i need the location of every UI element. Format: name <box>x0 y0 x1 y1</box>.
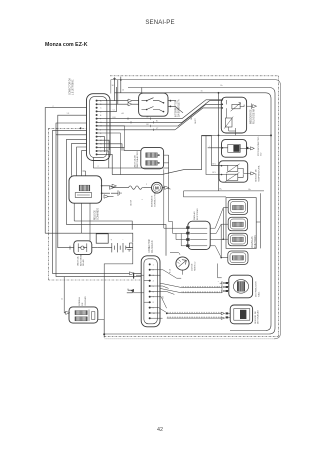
svg-text:B+: B+ <box>220 189 223 191</box>
shielded cable to knock sensor line 2 <box>167 317 221 319</box>
injector V4 body <box>228 251 248 264</box>
motor M1 fuel pump circle <box>152 182 163 193</box>
coil T1 label BOBINA DE IGNICAO <box>78 296 87 306</box>
svg-text:DE: DE <box>82 302 84 306</box>
wire left bus 1 from pin row <box>52 131 141 274</box>
wire 2 to ECU pin (left feed) <box>45 108 86 234</box>
terminal arrow pump feed <box>110 186 115 189</box>
relay K1 label RELE DE COMANDO <box>94 208 99 220</box>
svg-text:BOBINA: BOBINA <box>78 297 81 306</box>
wire left bus 2 from pin row <box>56 135 141 277</box>
svg-text:PARTIDA A FRIO: PARTIDA A FRIO <box>136 151 139 168</box>
wire pin to cold start feed <box>97 147 141 150</box>
svg-text:MEDIDOR DE: MEDIDOR DE <box>251 109 253 124</box>
sensor B1 pot track <box>232 104 240 108</box>
ground arrow right of water temp sensor <box>248 172 255 175</box>
wire long run to pump row <box>112 135 211 174</box>
svg-text:15: 15 <box>62 298 64 300</box>
switch S1 contacts <box>142 98 164 112</box>
wire battery row <box>98 247 133 249</box>
connector diagnostic socket <box>96 234 108 243</box>
svg-text:RELE DE: RELE DE <box>94 210 96 220</box>
wire outer frame bottom ticked <box>104 338 274 340</box>
connector J2 pin letters <box>153 264 156 315</box>
terminal curl arrow into connector 2 <box>127 289 132 293</box>
wire feeds into B3 <box>202 136 212 175</box>
node battery plus mark <box>113 77 116 80</box>
sensor B1 temp resistor <box>225 118 232 127</box>
switch S1 label INTERRUPTOR DA BORBOLETA <box>176 99 181 117</box>
distributor U1 pins <box>226 283 229 291</box>
sensor B3 thermistor 2 <box>227 174 238 180</box>
ground symbol right of relay <box>111 190 121 196</box>
terminal arrows between J1 and throttle switch <box>128 99 132 106</box>
wire long bus row 4 to right column <box>97 129 175 131</box>
sensor B2 temperature sender body <box>222 140 247 158</box>
wire pin to mid vertical b <box>97 140 109 150</box>
svg-text:GE/RT: GE/RT <box>195 117 197 124</box>
svg-text:+: + <box>209 146 211 148</box>
connector J2 label CONECTOR DA 3A EZ-K <box>149 239 154 252</box>
wire J3 to injector V3 <box>210 239 223 241</box>
connector J2 CONECTOR DA 3A EZ-K outer shell <box>141 256 160 327</box>
resistor ballast squiggle fuel pump <box>129 186 144 189</box>
svg-text:2: 2 <box>146 184 147 186</box>
svg-text:A: A <box>100 100 102 103</box>
ECU boundary dashed top edge <box>110 75 279 77</box>
valve Y1 right pins <box>157 155 168 163</box>
svg-text:B.14: B.14 <box>170 269 172 273</box>
svg-text:1: 1 <box>153 264 155 266</box>
connector J1 label CONECTOR DA L.E.JETRONIC <box>69 78 75 95</box>
switch S1 contact pivots <box>146 100 148 102</box>
node junction at bus C <box>270 134 272 136</box>
wire diagonal bundle to air flow meter 3 <box>178 104 221 126</box>
wire long bus row 1 to right column <box>97 118 182 120</box>
sensor B3 label <box>256 165 261 182</box>
wire bus into connector2 region 1 <box>140 272 142 274</box>
relay K1 coil <box>79 185 90 191</box>
labels B.5 pins <box>209 146 217 175</box>
wire top feed 15 riser to injectors <box>218 93 220 191</box>
coil T1 core and hv terminal <box>89 310 95 322</box>
svg-text:CO: CO <box>261 152 263 156</box>
svg-text:1: 1 <box>142 199 144 200</box>
svg-text:15: 15 <box>122 90 125 92</box>
coil T1 primary winding <box>75 311 87 315</box>
injector group outer frame <box>226 198 256 249</box>
knock sensor pin blocks <box>226 312 229 314</box>
svg-text:PARA AS: PARA AS <box>193 211 196 220</box>
wire pin D down-fan 1 <box>97 87 117 111</box>
wire battery riser <box>104 251 133 338</box>
sensor B4 knock sensor body <box>230 305 252 324</box>
svg-text:B 5: B 5 <box>213 172 217 174</box>
injector V1 body <box>228 200 247 215</box>
svg-text:C2: C2 <box>113 110 115 112</box>
svg-text:GE/GR: GE/GR <box>131 199 133 206</box>
svg-text:FLUXO DE AR: FLUXO DE AR <box>253 108 256 124</box>
lamp H1 filament arrow <box>179 260 187 267</box>
svg-text:HALL: HALL <box>257 291 260 297</box>
svg-text:VALVULAS: VALVULAS <box>251 236 254 248</box>
ECU boundary dashed mid shelf to connector 2 <box>49 279 142 281</box>
injector V4 pin <box>221 257 228 259</box>
injector bus verticals <box>221 208 223 258</box>
wire long bus row 2 to right column <box>97 121 182 123</box>
svg-text:+: + <box>111 239 113 242</box>
svg-text:LUZ DE: LUZ DE <box>192 263 194 271</box>
svg-text:ADICIONAL: ADICIONAL <box>79 253 82 266</box>
wire left inner bus 3 <box>67 139 87 221</box>
relay K1 bottom pins <box>74 203 90 241</box>
wire perimeter bus C (inner loop right) <box>115 93 272 331</box>
svg-text:INJETORAS: INJETORAS <box>196 208 199 220</box>
valve Y1 label <box>133 151 139 168</box>
switch S1 right pins <box>168 101 172 107</box>
connector J1 inner shell <box>90 97 107 158</box>
wire mid-left horizontal run 1 <box>74 221 132 230</box>
injector V3 coil <box>233 237 244 241</box>
svg-text:SW: SW <box>163 296 165 299</box>
wire mid-left horizontal run 2 <box>67 221 166 256</box>
sensor B3 pins <box>212 166 248 178</box>
svg-text:1 2: 1 2 <box>124 147 126 150</box>
node junction on dashed shelf left <box>80 127 82 129</box>
injector V2 pin <box>221 223 228 225</box>
relay K1 RELE DE COMANDO body <box>69 176 102 203</box>
svg-text:CONECTOR: CONECTOR <box>149 239 151 252</box>
wire row 2 below connector <box>94 158 169 169</box>
wire diagonal bundle to air flow meter 1 <box>182 100 221 119</box>
svg-text:SERVICO: SERVICO <box>195 261 197 271</box>
wire battery to riser <box>129 243 133 251</box>
ground symbol at battery <box>126 243 132 251</box>
svg-text:GE/BL: GE/BL <box>191 114 193 120</box>
svg-text:DISTRIBUIDOR: DISTRIBUIDOR <box>255 281 257 297</box>
wire B+ feed to injectors <box>184 191 264 197</box>
coil T1 secondary winding <box>75 317 87 321</box>
wire pump branch <box>112 187 128 189</box>
injector V3 body <box>228 233 247 246</box>
svg-text:15: 15 <box>201 90 203 92</box>
svg-text:2: 2 <box>53 106 54 108</box>
wire diagonal bundle to air flow meter 2 <box>182 100 221 122</box>
ground arrow right of temp sender <box>247 147 255 150</box>
wire right column vertical stub above distributor <box>218 264 222 278</box>
ground arrow right of air flow meter <box>247 103 257 109</box>
wire pin to mid vertical a <box>97 137 105 152</box>
injector V2 body <box>228 217 247 231</box>
wire pin riser to top bus 3 <box>120 77 122 93</box>
wire right bus down from injectors <box>256 193 260 248</box>
node junction 15 feed <box>218 92 220 94</box>
wire J2 pin rows right to diagonals <box>151 270 182 318</box>
relay K1 side pins <box>102 186 110 193</box>
tiny pin tick marks on bus rows <box>128 117 154 131</box>
terminal arrow into connector 2 upper <box>130 272 135 275</box>
ECU boundary dashed top-left shelf <box>49 127 87 129</box>
terminal arrows into knock sensor <box>221 312 224 319</box>
wire left inner bus 6 <box>82 151 87 176</box>
wire knock sensor stubs <box>228 313 230 317</box>
wire 1-3 to ECU pin (left feed) <box>58 115 87 248</box>
sensor B4 label <box>255 310 260 324</box>
svg-text:B 5: B 5 <box>213 163 217 165</box>
wire diagonal bundle to air flow meter 4 <box>175 108 221 130</box>
svg-text:COMANDO: COMANDO <box>97 208 100 220</box>
wire pin fan extra 1 <box>97 151 109 168</box>
tiny wire code labels <box>53 85 224 299</box>
wire valve feed from left <box>97 144 122 151</box>
svg-text:M: M <box>155 186 159 191</box>
svg-text:4: 4 <box>153 281 155 283</box>
connector J1 ECU CONECTOR DA L.E.JETRONIC outer shell <box>87 94 111 161</box>
shielded cable to distributor line 2 <box>181 292 219 294</box>
distributor pin blocks <box>225 282 228 284</box>
wire left exit pin G <box>56 123 87 135</box>
wire pin riser to top bus 2 <box>117 80 119 104</box>
wire pin riser to top bus 1 <box>114 78 116 100</box>
svg-text:IGNICAO: IGNICAO <box>84 296 87 306</box>
valve Y1 winding 1 <box>146 153 157 158</box>
wire feeds down to J3 <box>164 169 188 255</box>
svg-text:C: C <box>100 108 102 110</box>
sensor B2 label <box>258 136 263 156</box>
valve Y2 label <box>76 253 85 266</box>
svg-text:SENSOR DE: SENSOR DE <box>255 311 257 324</box>
svg-text:+: + <box>218 281 220 283</box>
switch S1 INTERRUPTOR DA BORBOLETA body <box>139 93 168 116</box>
sensor B1 internal wires <box>227 100 245 133</box>
svg-text:B+: B+ <box>221 85 224 87</box>
terminal arrow lower-left of pump <box>104 195 109 198</box>
svg-text:BOMBA DE: BOMBA DE <box>151 195 154 207</box>
injector V3 pin <box>223 238 228 240</box>
svg-text:-: - <box>218 291 219 293</box>
svg-text:1 3: 1 3 <box>67 113 70 115</box>
svg-text:COMBUSTIVEL: COMBUSTIVEL <box>154 191 156 207</box>
wire lamp feed <box>170 252 183 274</box>
svg-text:30: 30 <box>112 85 115 87</box>
svg-text:TEMPERATURA: TEMPERATURA <box>258 165 261 182</box>
sensor B3 water temperature dual body <box>219 161 248 182</box>
svg-text:VALVULA: VALVULA <box>76 256 79 266</box>
wire outer rounded frame <box>111 80 281 339</box>
connector J2 inner shell <box>144 259 157 324</box>
relay K1 contact plate <box>75 193 91 198</box>
injector V4 coil <box>232 256 243 260</box>
node junction bottom bus <box>103 333 105 335</box>
injector V1 pin <box>223 207 228 209</box>
valve Y2 pins <box>58 246 98 250</box>
wire pump output arrow <box>162 188 170 189</box>
lamp H1 warning lamp circle <box>176 257 189 270</box>
wire coil output to bottom junction <box>98 320 104 338</box>
coil T1 BOBINA DE IGNICAO body <box>69 307 98 323</box>
wire pin fan extra 3 <box>97 126 125 148</box>
wire pin A to throttle junction <box>97 100 128 102</box>
wire left inner bus 4 <box>72 143 87 175</box>
svg-text:VALVULA DE: VALVULA DE <box>133 154 136 168</box>
wire J3 to injector V2 <box>210 224 221 233</box>
valve Y1 cold start valve body <box>141 148 164 169</box>
svg-text:DA 3A EZ-K: DA 3A EZ-K <box>151 240 154 253</box>
connector J1 pin letters <box>100 100 102 153</box>
connector J2 pin strip <box>149 263 151 319</box>
wire valve outputs to bus <box>168 155 170 175</box>
ECU boundary dashed right edge <box>278 76 280 337</box>
labels B+ at injector feed <box>220 189 252 191</box>
wire left inner bus 5 <box>77 147 87 176</box>
wire pin bottom to pump feed <box>97 154 112 174</box>
svg-text:A4: A4 <box>122 112 124 115</box>
wire to distributor center pin <box>160 283 223 293</box>
svg-text:DETONACAO: DETONACAO <box>257 310 260 324</box>
wire J3 to injector V1 <box>210 208 223 229</box>
battery G1 symbol <box>112 243 126 252</box>
wire pin fan extra 2 <box>97 133 120 175</box>
wire squiggle to pump <box>144 187 152 189</box>
wire coil feed riser <box>64 277 65 313</box>
tiny wire code labels near connector J1 <box>113 110 160 130</box>
relay K1 top pin <box>83 171 86 176</box>
svg-text:8: 8 <box>153 302 155 304</box>
wire perimeter bus B (supply loop right) <box>104 88 275 335</box>
svg-text:BL: BL <box>156 120 158 122</box>
node junction on dashed shelf <box>133 273 135 279</box>
ground arrow right of relay <box>110 184 117 187</box>
connector J3 pin rows <box>190 228 207 246</box>
svg-text:CONECTOR DA: CONECTOR DA <box>69 78 72 95</box>
svg-text:E: E <box>100 115 102 117</box>
wire J3 to injector V4 <box>210 246 221 258</box>
labels 30 15 at risers <box>112 85 125 92</box>
wire long bus row 3 to right column <box>97 125 178 127</box>
wire throttle pins to bundle <box>172 101 183 113</box>
sensor B4 inner element <box>234 309 250 321</box>
svg-text:DE AR: DE AR <box>82 259 85 266</box>
wire J2 pin rows left <box>132 273 150 302</box>
connector J3 labels above <box>193 208 199 220</box>
sensor B2 pins <box>208 147 247 150</box>
svg-text:L.E.JETRONIC: L.E.JETRONIC <box>73 79 75 95</box>
sensor B2 pin block <box>246 147 248 149</box>
lamp H1 label <box>192 261 197 271</box>
svg-text:POTENCIOMETRO: POTENCIOMETRO <box>258 136 260 156</box>
distributor U1 DISTRIBUIDOR HALL body <box>229 275 253 298</box>
wire throttle box top stub <box>141 88 143 93</box>
connector J1 pin strip <box>96 100 98 156</box>
wire sensor common line to bus junction <box>212 133 272 136</box>
sensor B1 label MEDIDOR DE FLUXO DE AR <box>251 108 256 124</box>
sensor B3 thermistor 1 <box>228 165 238 171</box>
svg-text:INJETORAS: INJETORAS <box>254 235 257 248</box>
svg-text:SENSOR DE: SENSOR DE <box>256 169 258 182</box>
shielded cable to knock sensor line 1 <box>167 312 221 314</box>
sensor B1 wiper arrow <box>231 102 241 111</box>
injector V1 coil <box>233 205 244 209</box>
battery labels <box>111 239 124 242</box>
node junction top bus <box>120 79 122 81</box>
sensor B1 MEDIDOR DE FLUXO DE AR body <box>221 97 246 133</box>
injector V2 coil <box>233 222 244 226</box>
svg-text:-: - <box>123 239 124 242</box>
connector J3 pins <box>186 226 189 229</box>
shielded cable to distributor line 1 <box>181 287 219 289</box>
labels distributor pins <box>218 281 220 294</box>
ECU boundary dashed left edge <box>48 128 50 280</box>
sensor B2 element <box>228 144 240 152</box>
distributor U1 label <box>255 281 260 297</box>
svg-text:DA BORBOLETA: DA BORBOLETA <box>178 99 181 117</box>
wire mid-left horizontal run 3 <box>45 233 133 242</box>
valve Y2 auxiliary air valve body <box>74 241 92 255</box>
svg-text:2: 2 <box>98 166 100 168</box>
valve Y1 winding 2 <box>146 161 157 166</box>
connector J3 injector harness body <box>188 221 210 249</box>
terminal arrow into coil <box>66 311 70 314</box>
injector group label VALVULAS INJETORAS <box>251 235 257 248</box>
valve Y2 inner symbol <box>78 243 87 252</box>
sensor B1 pin dots <box>222 99 224 101</box>
label bomba de combustivel <box>151 191 157 207</box>
svg-text:B10: B10 <box>113 117 116 119</box>
wire pin B to throttle switch <box>97 103 128 105</box>
distributor U1 hall rotor oval <box>233 280 248 294</box>
wire arrow stubs into throttle switch <box>132 101 139 105</box>
ECU boundary dashed bottom edge <box>104 336 278 338</box>
terminal arrows into distributor <box>222 282 225 293</box>
svg-text:INTERRUPTOR: INTERRUPTOR <box>176 100 178 117</box>
node junction at cable start <box>166 313 168 315</box>
